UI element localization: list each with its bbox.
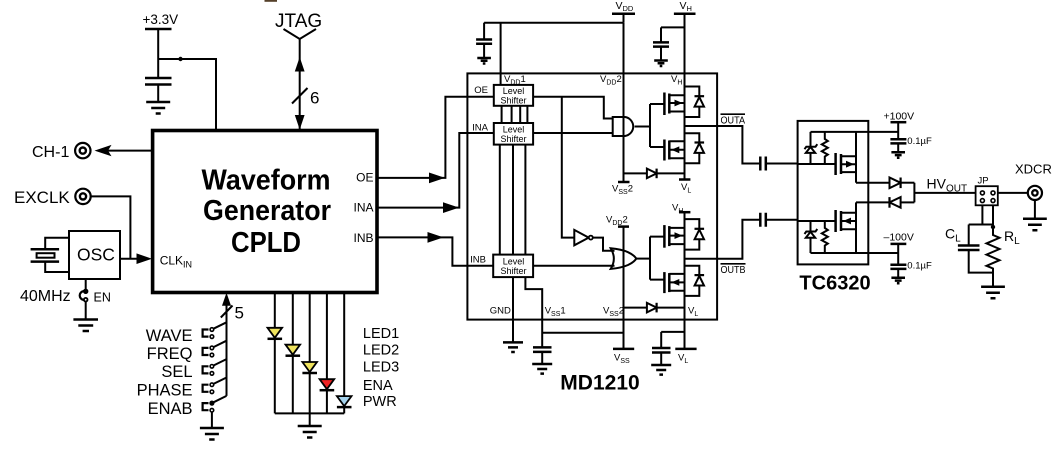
coupling capacitor (OUTB) xyxy=(760,213,766,227)
VDD1 pin line xyxy=(500,23,502,85)
VSS external terminal xyxy=(613,349,634,365)
resistor RL xyxy=(987,225,1021,287)
svg-text:INB: INB xyxy=(470,255,486,266)
diode D3 (VSS2 to VL, top channel) xyxy=(624,169,685,179)
body diode D5 xyxy=(685,266,705,296)
bottom input wire xyxy=(798,220,836,222)
ground (-100V cap) xyxy=(891,278,905,284)
svg-text:CPLD: CPLD xyxy=(231,227,301,259)
ground (switches) xyxy=(200,412,224,440)
svg-text:GND: GND xyxy=(490,306,511,317)
wire OE CPLD to MD1210 xyxy=(377,97,494,184)
LED labels xyxy=(363,326,399,410)
svg-text:PWR: PWR xyxy=(363,394,397,410)
ground (EN) xyxy=(73,320,98,332)
wire CPLD to CH-1 with arrow xyxy=(95,145,153,156)
svg-text:EN: EN xyxy=(94,291,111,305)
svg-text:TC6320: TC6320 xyxy=(799,273,870,295)
Q2 source wire out xyxy=(856,201,890,203)
svg-text:CH-1: CH-1 xyxy=(32,144,69,161)
Q1 source wire out xyxy=(856,182,890,184)
+100V supply xyxy=(884,111,915,140)
svg-text:Shifter: Shifter xyxy=(500,134,526,144)
svg-text:+3.3V: +3.3V xyxy=(143,12,179,27)
VDD supply rail xyxy=(484,0,635,23)
JTAG connector xyxy=(275,11,322,39)
switch S1 WAVE xyxy=(146,322,227,345)
capacitor CL xyxy=(945,225,993,273)
ground (3.3V cap) xyxy=(146,102,170,114)
svg-text:JP: JP xyxy=(977,176,988,187)
jumper JP xyxy=(976,176,998,206)
diode D6 (VSS2 to VL, bottom channel) xyxy=(624,303,685,313)
wire LS1 output to AND gate xyxy=(533,97,613,119)
diode D8 (output bottom) xyxy=(890,197,915,208)
svg-text:OSC: OSC xyxy=(77,245,115,265)
body diode D4 xyxy=(685,219,705,250)
+3.3V supply xyxy=(143,12,179,78)
ground (+100V cap) xyxy=(891,152,905,158)
svg-text:Generator: Generator xyxy=(203,195,331,227)
OUTA label xyxy=(721,114,746,126)
svg-text:Level: Level xyxy=(503,125,525,135)
wire OR output to gate node xyxy=(635,258,650,260)
wire cap to TC6320 top input xyxy=(766,163,798,165)
oscillator OSC xyxy=(69,231,120,279)
VH terminal bar (bottom channel) xyxy=(672,203,690,349)
HVOUT node xyxy=(914,183,975,203)
transistor M2 (PMOS bottom) xyxy=(664,140,684,161)
resistor R2 (gate) xyxy=(822,221,828,253)
capacitor (VSS1) xyxy=(533,347,552,363)
bottom rail wire (to -100V) xyxy=(811,252,899,254)
capacitor C (3.3V rail) xyxy=(145,78,172,102)
inverter U4 xyxy=(574,230,614,251)
wire INB CPLD to MD1210 xyxy=(377,232,493,266)
node OUTA internal wire xyxy=(685,125,718,127)
switch S4 PHASE xyxy=(137,378,227,400)
svg-text:Shifter: Shifter xyxy=(500,266,526,276)
wire OSC output to CLKIN with arrow xyxy=(120,253,152,264)
svg-text:WAVE: WAVE xyxy=(146,327,193,345)
svg-text:EXCLK: EXCLK xyxy=(14,188,70,207)
LED1 (yellow) xyxy=(268,328,283,414)
wire OUTA to coupling cap xyxy=(717,126,760,164)
gate node wires (top pair) xyxy=(650,104,664,147)
level shifter U2a xyxy=(494,85,533,106)
VSS2 terminal bar (top channel) xyxy=(618,181,630,184)
junction dot (JP pins) xyxy=(991,225,995,229)
TC6320 IC box xyxy=(798,121,869,265)
switch S5 ENAB xyxy=(148,396,227,418)
wire INA CPLD to MD1210 xyxy=(377,133,494,213)
top input wire xyxy=(798,163,836,165)
ground (VH cap) xyxy=(654,61,668,67)
JP pins down xyxy=(969,205,993,224)
body diode D1 xyxy=(685,87,705,118)
svg-text:PHASE: PHASE xyxy=(137,382,193,400)
transistor Q1 (NMOS) xyxy=(836,132,856,183)
capacitor (VH bypass) xyxy=(653,27,669,60)
JTAG bus wire (double arrow) xyxy=(295,39,305,130)
transistor M1 (NMOS top) xyxy=(664,93,684,116)
capacitor (VL) xyxy=(652,332,685,365)
ground (LEDs) xyxy=(298,413,322,437)
transistor M4 (PMOS bottom channel) xyxy=(664,272,684,293)
svg-text:Level: Level xyxy=(503,257,525,267)
XDCR connector xyxy=(1015,162,1052,200)
wire LS2 output to AND gate xyxy=(533,132,613,134)
ground (GND pin) xyxy=(503,342,523,352)
wire JP to XDCR xyxy=(998,192,1028,194)
transistor Q2 (PMOS) xyxy=(836,202,856,253)
zener diode Z1 xyxy=(805,132,818,164)
wire EXCLK to OSC output xyxy=(92,196,131,258)
level shifter U2c xyxy=(493,255,533,278)
LED wires from CPLD xyxy=(275,293,344,397)
LED common wire xyxy=(275,412,344,414)
switch S3 SEL xyxy=(161,359,226,381)
wire cap to TC6320 bottom input xyxy=(766,219,798,221)
svg-text:–100V: –100V xyxy=(884,232,914,244)
-100V supply xyxy=(884,232,914,265)
svg-text:Shifter: Shifter xyxy=(500,96,526,106)
switch bus wire to CPLD xyxy=(222,293,231,396)
capacitor 0.1uF (+100V) xyxy=(890,136,932,152)
svg-text:0.1µF: 0.1µF xyxy=(907,136,932,147)
top rail wire (to +100V) xyxy=(811,131,899,133)
wire LS3 output to OR gate xyxy=(533,265,614,267)
svg-text:INA: INA xyxy=(353,201,373,215)
resistor R1 (gate) xyxy=(822,132,828,164)
wire VSS1 to VSS xyxy=(542,332,623,334)
wire LS1 to inverter xyxy=(562,97,575,238)
svg-text:LED1: LED1 xyxy=(363,326,399,342)
svg-text:5: 5 xyxy=(235,304,244,323)
EXCLK connector xyxy=(14,188,91,207)
svg-text:OE: OE xyxy=(474,85,488,96)
svg-text:OUTB: OUTB xyxy=(721,265,746,276)
svg-text:SEL: SEL xyxy=(161,363,192,381)
LED4 ENA (red) xyxy=(320,379,335,413)
svg-text:XDCR: XDCR xyxy=(1015,162,1052,177)
zener diode Z2 xyxy=(805,221,818,253)
capacitor 0.1uF (-100V) xyxy=(890,260,932,277)
level shifter interconnect columns LS1-LS2 xyxy=(502,106,528,123)
MD1210 IC box xyxy=(467,73,717,319)
VSS1 pin wire xyxy=(525,277,542,347)
LED3 (yellow) xyxy=(302,362,317,413)
OR gate U5 xyxy=(611,248,637,269)
wire AND output to gate node xyxy=(635,126,650,128)
junction dot xyxy=(178,57,182,61)
capacitor (VDD bypass) xyxy=(476,23,492,58)
wire OUTB to coupling cap xyxy=(717,220,760,259)
level shifter U2b xyxy=(494,123,533,145)
wire +3.3V to CPLD xyxy=(158,59,216,131)
crystal X1 xyxy=(31,238,69,272)
EN switch xyxy=(80,279,88,319)
bus slash 6 xyxy=(292,88,308,104)
transistor M3 (NMOS bottom channel) xyxy=(664,225,684,248)
svg-text:MD1210: MD1210 xyxy=(560,372,639,395)
svg-text:ENAB: ENAB xyxy=(148,400,193,418)
VDD2 pin line (to VSS2 bar) xyxy=(623,23,625,182)
AND gate U3 xyxy=(613,117,634,136)
LED2 (yellow) xyxy=(286,345,301,414)
svg-text:OUTA: OUTA xyxy=(721,116,746,127)
ground (VSS1 cap) xyxy=(532,364,552,374)
stray mark top edge xyxy=(265,0,278,2)
ground (VDD cap) xyxy=(477,58,491,64)
gate node wires (bottom pair) xyxy=(650,237,664,280)
svg-text:LED2: LED2 xyxy=(363,343,399,359)
diode D7 (output top) xyxy=(890,178,915,189)
CH-1 connector xyxy=(32,143,91,161)
ground (VL cap) xyxy=(651,365,671,375)
coupling capacitor (OUTA) xyxy=(760,157,766,171)
CPLD U1 Waveform Generator xyxy=(153,131,377,293)
ground (RL) xyxy=(981,287,1005,299)
svg-text:OE: OE xyxy=(356,171,373,185)
bus slash 5 xyxy=(221,306,233,318)
VL terminal bar (top channel) xyxy=(679,178,690,181)
level shifter interconnect columns LS2-LS3 xyxy=(500,145,526,255)
svg-text:ENA: ENA xyxy=(363,378,393,394)
VL external terminal xyxy=(675,349,696,365)
svg-text:LED3: LED3 xyxy=(363,360,399,376)
switch S2 FREQ xyxy=(147,341,227,363)
body diode D2 xyxy=(685,133,705,163)
svg-text:FREQ: FREQ xyxy=(147,345,193,363)
svg-text:0.1µF: 0.1µF xyxy=(907,260,932,271)
OUTB label xyxy=(721,264,746,276)
svg-text:6: 6 xyxy=(310,89,319,108)
svg-text:Level: Level xyxy=(503,86,525,96)
svg-text:INA: INA xyxy=(472,123,489,134)
VH supply rail xyxy=(661,0,696,180)
svg-text:Waveform: Waveform xyxy=(202,164,331,196)
svg-text:INB: INB xyxy=(353,231,373,245)
svg-text:40MHz: 40MHz xyxy=(20,288,71,305)
GND pin wire xyxy=(512,277,514,342)
VDD2 terminal bar (bottom channel) xyxy=(606,215,629,349)
svg-text:+100V: +100V xyxy=(884,111,915,123)
LED5 PWR (blue) xyxy=(337,396,352,413)
node OUTB internal wire xyxy=(685,258,718,260)
ground (XDCR) xyxy=(1023,200,1047,230)
